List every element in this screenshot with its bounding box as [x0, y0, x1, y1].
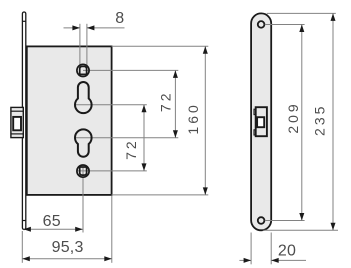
- dimension 72 (keyhole1 to square2): [142, 105, 147, 171]
- extension line keyhole2 center: [75, 137, 179, 139]
- square follower hole 2: [77, 165, 89, 177]
- extension line square1 center: [83, 69, 178, 71]
- svg-text:160: 160: [185, 102, 201, 134]
- extension line square1 width left: [79, 24, 81, 66]
- keyhole 1 (cylinder profile, circle at bottom): [75, 82, 92, 113]
- faceplate screw hole bottom: [258, 217, 265, 224]
- dimension 65 (backset): [23, 227, 82, 232]
- extension line square1 width right: [86, 24, 88, 66]
- svg-text:8: 8: [115, 10, 124, 27]
- svg-text:72: 72: [123, 138, 139, 160]
- extension line faceplate bottom: [263, 229, 338, 231]
- latch opening (front view): [254, 107, 267, 136]
- svg-text:209: 209: [285, 101, 301, 133]
- extension line 95.3 right: [111, 196, 113, 263]
- extension line keyhole1 center: [75, 104, 147, 106]
- dimension 209 (hole spacing): [299, 24, 304, 220]
- dimension 8 line right: [87, 25, 125, 30]
- strip screw hole tick bottom: [22, 220, 25, 222]
- svg-text:235: 235: [311, 104, 327, 136]
- svg-text:65: 65: [43, 213, 61, 230]
- dimension 72 (square1 to keyhole2): [173, 70, 178, 137]
- dimension 235 (faceplate height): [331, 13, 336, 230]
- extension line 20 left: [250, 233, 252, 265]
- extension line hole1 center: [265, 23, 305, 25]
- extension line faceplate top: [267, 12, 336, 14]
- keyhole 2 (cylinder profile, circle at top): [75, 129, 92, 156]
- dimension 95.3 (case depth): [22, 256, 112, 261]
- svg-text:95,3: 95,3: [52, 239, 84, 256]
- lock case body: [27, 46, 112, 195]
- svg-text:20: 20: [278, 243, 296, 260]
- extension line square2 axis down: [82, 167, 84, 233]
- dimension 20 line left: [239, 258, 251, 263]
- strip screw hole tick top: [22, 20, 25, 22]
- extension line 95.3 left: [21, 231, 23, 263]
- faceplate strip (side view): [22, 12, 25, 230]
- extension line case bottom: [112, 194, 209, 196]
- extension line hole2 center: [265, 220, 305, 222]
- svg-text:72: 72: [158, 91, 174, 113]
- extension line case top: [112, 45, 209, 47]
- faceplate (front view): [251, 13, 271, 230]
- extension line 20 right: [270, 233, 272, 265]
- dimension 160 (case height): [203, 46, 208, 195]
- dimension 20 line right: [271, 258, 306, 263]
- dimension 8 line left: [64, 25, 80, 30]
- latch bolt (side view): [11, 107, 23, 137]
- extension line square2 center: [77, 170, 147, 172]
- square follower hole 1: [77, 64, 89, 76]
- faceplate screw hole top: [258, 21, 265, 28]
